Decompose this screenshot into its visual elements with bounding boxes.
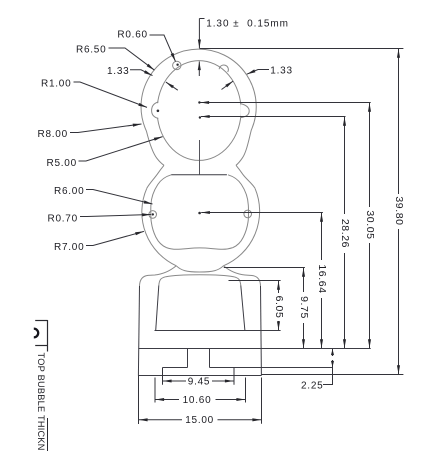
- top bubble right ear: [219, 65, 228, 72]
- horizontal line from top bubble center c1: [200, 102, 370, 104]
- border line near THICKN: [47, 418, 49, 451]
- bottom bubble bore: left side: [151, 175, 171, 248]
- bottom bubble outer wall right: [223, 188, 259, 265]
- R6.50 leader: [109, 48, 155, 70]
- bubble underside between notches: [176, 266, 223, 272]
- base left wall: [138, 286, 139, 376]
- erasers for side bulges on egg: [152, 103, 248, 118]
- R5.00 leader: [79, 137, 163, 161]
- left bump (R0.70): [149, 211, 157, 219]
- svg-text:10.60: 10.60: [183, 395, 212, 406]
- svg-text:R8.00: R8.00: [38, 129, 68, 140]
- title block box right edge: [47, 320, 49, 352]
- R1.00 leader: [74, 82, 148, 107]
- structural straight lines (dark): [138, 175, 261, 376]
- horizontal line from bottom bubble center: [201, 212, 323, 214]
- base cavity arch and inner walls: [159, 275, 241, 286]
- svg-text:R5.00: R5.00: [47, 158, 77, 169]
- R0.60 leader: [150, 35, 176, 62]
- ext line at cavity top level: [229, 280, 281, 282]
- bottom bubble outer wall left: [142, 188, 176, 265]
- right bump: [244, 210, 252, 218]
- cut-off glyph in box: [34, 329, 38, 338]
- 1.33 left inside arrow: [166, 82, 178, 90]
- svg-text:1.30 ± 0.15mm: 1.30 ± 0.15mm: [206, 19, 289, 30]
- ext line at neck notch level: [224, 267, 305, 269]
- svg-text:R1.00: R1.00: [41, 78, 71, 89]
- 9.75 dim: [303, 268, 305, 292]
- cavity floor line + ext: [155, 330, 281, 332]
- 2.25 dim: [332, 349, 334, 356]
- top bubble left ear (R0.60): [173, 61, 181, 69]
- svg-text:R0.70: R0.70: [48, 213, 78, 224]
- svg-text:30.05: 30.05: [364, 210, 376, 239]
- svg-text:39.80: 39.80: [393, 196, 405, 225]
- bottom ext line: [262, 374, 404, 376]
- crossbar ext line: [234, 367, 332, 369]
- 1.33 right inside arrow: [222, 81, 234, 90]
- right flare and base right wall: [223, 266, 260, 286]
- T-slot crossbar left: [163, 367, 188, 369]
- 30.05 dim: [369, 103, 371, 207]
- left flare and base left wall: [140, 266, 177, 286]
- svg-text:16.64: 16.64: [316, 264, 328, 293]
- base bottom face: [138, 375, 261, 377]
- T-slot neck left: [187, 349, 189, 368]
- svg-text:TOP BUBBLE THICKN: TOP BUBBLE THICKN: [36, 353, 46, 451]
- R7.00 leader: [86, 231, 144, 245]
- title block box bottom edge: [35, 345, 47, 347]
- top bubble inner egg: [157, 61, 241, 161]
- T-slot crossbar right: [210, 367, 235, 369]
- R6.00 leader: [86, 190, 153, 205]
- 28.26 dim: [344, 117, 346, 214]
- R0.70 leader: [80, 215, 151, 217]
- svg-text:6.05: 6.05: [273, 296, 285, 319]
- waist lower-right: [236, 165, 255, 188]
- title block box top edge: [35, 320, 47, 322]
- svg-text:R0.60: R0.60: [117, 29, 147, 40]
- svg-text:9.75: 9.75: [298, 296, 310, 319]
- 39.80 dim: [398, 49, 400, 194]
- center line segment between bubbles: [199, 140, 201, 175]
- 9.45 dim: [163, 380, 186, 382]
- top bubble left side bulge (R1.00): [152, 102, 159, 119]
- T-slot neck right: [209, 349, 211, 368]
- base right wall: [260, 286, 263, 376]
- svg-text:1.33: 1.33: [107, 66, 129, 77]
- center mark dots: [152, 63, 201, 215]
- top bubble outer wall: [141, 49, 256, 131]
- line A: slot top plane + ext: [138, 348, 370, 350]
- R8.00 leader: [70, 124, 142, 133]
- 15.00 dim: [139, 419, 182, 421]
- svg-text:9.45: 9.45: [188, 376, 210, 387]
- cavity left wall: [156, 286, 159, 331]
- top extension line: [199, 48, 403, 50]
- cavity right wall: [241, 286, 245, 331]
- svg-text:R6.50: R6.50: [76, 44, 106, 55]
- 1.33 left leader: [130, 70, 153, 76]
- bottom bore chord: [171, 174, 227, 176]
- horizontal line from top bubble center c2: [201, 116, 346, 118]
- 10.60 dim: [155, 399, 179, 401]
- svg-text:28.26: 28.26: [339, 219, 351, 248]
- waist upper-left: [146, 131, 164, 165]
- svg-text:R6.00: R6.00: [54, 186, 84, 197]
- ext verticals below base: [162, 368, 164, 385]
- 6.05 dim: [278, 281, 280, 293]
- svg-text:R7.00: R7.00: [54, 242, 84, 253]
- svg-text:1.33: 1.33: [270, 66, 292, 77]
- waist upper-right: [236, 130, 251, 165]
- 1.33 right leader: [247, 70, 269, 75]
- bottom bubble bore: wavy bottom: [167, 248, 233, 250]
- 1.30 leader bracket with down arrow: [199, 18, 204, 20]
- rotated dimension texts: [273, 196, 405, 319]
- svg-text:15.00: 15.00: [185, 415, 214, 426]
- top bubble right side bulge: [240, 104, 249, 118]
- up arrow to inner wall top: [198, 61, 200, 76]
- bottom bubble bore: right side: [228, 175, 248, 248]
- waist lower-left: [147, 165, 164, 188]
- 16.64 dim: [321, 213, 323, 260]
- svg-text:2.25: 2.25: [301, 380, 323, 391]
